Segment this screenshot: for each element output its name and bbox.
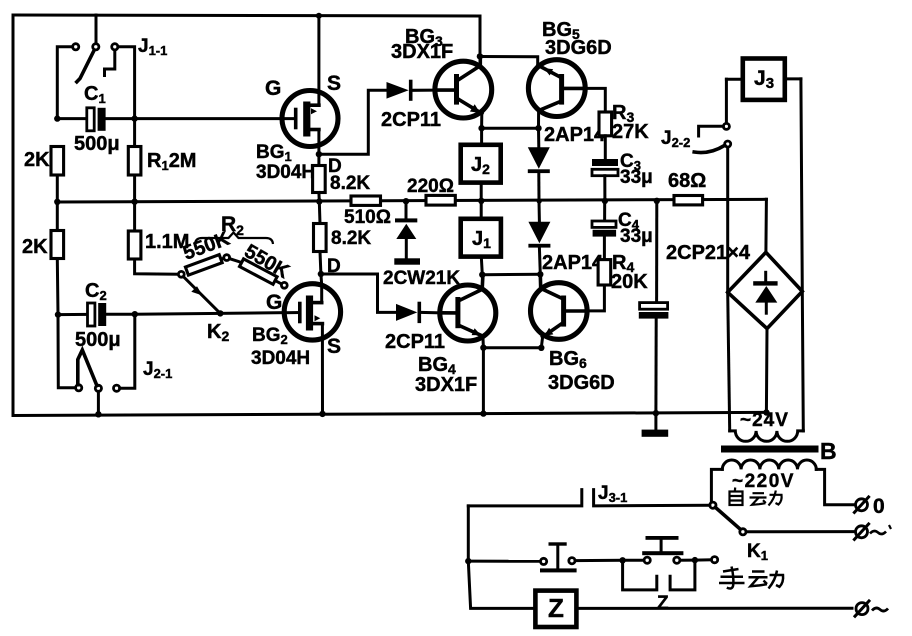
node: C2 right junction [132,311,138,317]
svg-text:2K: 2K [22,236,48,258]
node: BG3 collector junction [477,53,483,59]
svg-text:2K: 2K [24,149,50,171]
transformer B primary winding ~220V [711,460,853,505]
label: zidong (automatic) [730,488,782,506]
wire: BG3 emitter drop [480,114,483,129]
transistor BG1 (MOSFET 3D04H) [256,72,341,183]
resistor R3 27K [599,102,649,161]
svg-text:3DX1F: 3DX1F [391,41,453,63]
svg-text:2CW21K: 2CW21K [383,268,460,289]
node: BG3 emitter junction [478,125,484,131]
capacitor C2 500u [58,280,135,351]
resistor 8.2K (lower) [314,202,372,275]
wire: J3 right side down to bridge right vertex and transformer [801,79,803,431]
transformer B core [721,446,819,453]
wire: BG3 collector node to BG5 [480,57,538,65]
relay coil Z (time-delay box) [535,591,576,627]
svg-text:3D04H: 3D04H [256,162,315,183]
node: bottom rail x322 [319,411,325,417]
node: C2 left junction [55,311,61,317]
node: open contact terminal [712,557,718,563]
node: BG1 drain junction [316,151,322,157]
svg-text:2CP11: 2CP11 [385,331,445,353]
svg-text:S: S [327,335,341,358]
node: rail x481 [478,198,484,204]
resistor 510 ohm [344,196,391,228]
transformer B secondary winding ~24V [728,292,804,441]
wire: frame top border [13,15,480,16]
wire: C2 node to K2 node [135,312,221,316]
svg-text:8.2K: 8.2K [330,173,370,194]
relay coil J3 [726,59,801,100]
wire: rail corner down to bridge top vertex [764,199,768,252]
pushbutton (start, normally open) [468,542,576,572]
switch J1-1 [57,15,167,147]
node: rail x406 zener junction [403,198,409,204]
svg-text:510Ω: 510Ω [344,207,391,228]
node: BG5 emitter junction [535,125,541,131]
svg-text:3DX1F: 3DX1F [415,374,477,396]
svg-text:3DG6D: 3DG6D [548,372,615,394]
wire: drain node up to diode 2CP11 [319,90,387,154]
wire: BG5 emitter drop [537,111,540,129]
node: bottom rail x766 [763,409,769,415]
node: diode chain bottom junction [537,271,543,277]
svg-text:2CP11: 2CP11 [381,109,441,131]
node: rail x605 [602,198,608,204]
wire: BG4 emitter to bottom rail [482,348,485,414]
transistor BG6 (3DG6D) [531,274,615,394]
node: C1 left junction [54,115,60,121]
svg-text:68Ω: 68Ω [668,170,706,192]
switch K2 wiper arrow [183,277,229,345]
wire: BG2 drain node to lower 2CP11 [321,274,396,312]
terminal phi-tilde (K1 contact output) [854,524,891,539]
transistor BG2 (MOSFET 3D04H) [251,274,341,369]
pushbutton (stop, normally closed) [623,536,692,563]
svg-text:2CP21×4: 2CP21×4 [666,242,751,264]
node: top border x318 [316,13,322,19]
svg-text:27K: 27K [612,121,649,143]
node: bypass left junction [619,557,625,563]
wire: BG1 source riser to top border [317,15,320,105]
resistor 220 ohm [407,176,455,205]
diode 2CP11 (lower) [385,304,445,354]
node: rail x539 [537,199,542,204]
capacitor (output filter, unlabeled) [639,201,669,413]
wire: to open terminal [695,558,712,561]
svg-text:~24V: ~24V [740,410,789,431]
potentiometer R2 (two 550K sections) [178,213,293,288]
svg-text:Z: Z [548,593,564,623]
resistor 1.1M [128,202,189,275]
wire: emitter link BG4-BG6 [483,346,541,349]
wire: BG5 base to R3 [585,88,605,112]
svg-text:3DG6D: 3DG6D [545,37,612,59]
switch J2-1 [58,314,172,414]
transistor BG5 (3DG6D) [528,19,611,117]
node: BG6 emitter junction [538,345,544,351]
wire: frame left border [12,15,15,416]
svg-text:0: 0 [873,495,885,518]
node: rail x134 [131,199,137,205]
bridge rectifier 2CP21x4 [666,242,802,329]
node: control left junction [465,558,471,564]
svg-text:S: S [327,72,341,95]
resistor R4 20K [587,252,648,311]
wire: emitter link BG3-BG5 [482,127,539,130]
wire: J1 bottom to collector node [481,257,482,275]
wire: BG1 drain drop [317,130,320,155]
wire: bridge bottom vertex to ground rail [765,329,769,413]
capacitor C3 33u [592,151,653,201]
svg-text:G: G [265,77,281,100]
resistor 68 ohm [668,170,706,205]
switch K1 selector [710,502,854,563]
capacitor C4 33u [592,201,653,260]
switch J2-2 [661,79,731,152]
capacitor C1 500u [57,83,134,155]
resistor 2K (lower) [22,202,64,315]
node: BG4 emitter junction [480,345,486,351]
svg-text:B: B [820,438,837,464]
node: BG2 drain junction [318,271,324,277]
transistor BG3 (3DX1F) [391,26,492,118]
ground (main) [642,413,669,437]
wire: BG2 source to bottom rail [321,324,324,414]
resistor 2K (upper) [24,147,64,202]
svg-text:2AP14: 2AP14 [542,252,604,274]
wire: BG4 emitter drop [481,336,485,348]
wire: collector link BG4-BG6 [482,273,540,276]
zener diode 2CW21K [383,201,460,289]
wire: control left vertical lower [468,561,535,608]
wire: K2 node to BG2 gate [220,311,284,315]
svg-text:33μ: 33μ [620,226,653,247]
svg-text:3D04H: 3D04H [251,348,310,369]
svg-text:G: G [266,291,282,314]
relay coil J1 [461,219,501,257]
diode 2AP14 (upper) [528,124,606,201]
node: bottom rail x483 [480,410,486,416]
wire: PB1 to PB2 [575,559,623,562]
node: K2 bottom junction [217,310,223,316]
wire: bottom output line [576,607,852,610]
svg-text:8.2K: 8.2K [331,228,371,249]
svg-text:Z: Z [657,593,669,614]
node: bottom rail x98 [95,411,101,417]
diode 2AP14 (lower) [528,201,604,274]
node: bottom rail x656 [653,410,659,416]
diode 2CP11 (upper) [381,82,441,132]
wire: frame bottom border / ground rail [13,412,766,415]
wire: J2-2 to bridge left vertex [726,147,729,292]
svg-text:2AP14: 2AP14 [544,124,606,146]
svg-text:20K: 20K [611,271,648,293]
node: rail x57 [54,199,60,205]
node: rail x657 [654,198,660,204]
node: C1 right junction [131,115,137,121]
svg-text:220Ω: 220Ω [407,176,454,197]
label: shoudong (manual) [719,567,783,589]
resistor R1 2M [128,147,196,202]
node: rail x319 [316,198,322,204]
wire: top border corner down to BG3 collector node [479,16,482,56]
resistor 8.2K (upper) [313,154,371,201]
svg-text:33μ: 33μ [620,167,653,188]
node: bypass right junction [692,557,698,563]
svg-text:R12M: R12M [147,150,196,173]
contact Z (bypass, in lower branch) [623,560,695,614]
transistor BG4 (3DX1F) [415,275,496,396]
relay coil J2 [461,128,501,182]
wire: BG6 emitter drop [541,337,542,348]
svg-text:500μ: 500μ [74,133,120,155]
wire: main mid rail y=201 [57,199,766,202]
wire: J2 to J1 through rail [480,183,483,219]
terminal phi-tilde (bottom line) [855,601,888,616]
wire: C1 to BG1 gate [135,117,283,120]
terminal phi-0 [854,495,884,518]
svg-text:~220V: ~220V [732,471,795,492]
wire: control left vertical [467,506,470,561]
switch J3-1 [468,483,710,506]
node: BG4 collector junction [479,272,485,278]
